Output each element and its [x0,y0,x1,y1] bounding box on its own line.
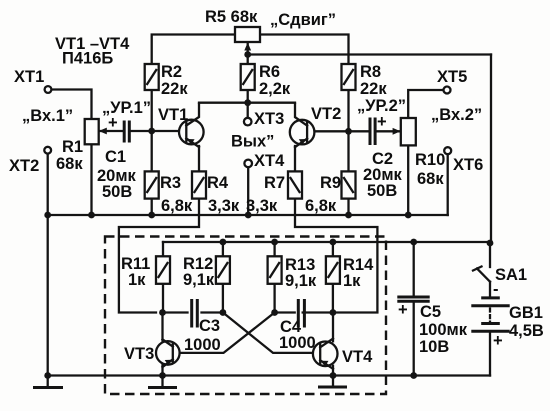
svg-text:GB1: GB1 [509,304,543,322]
wire R6 bottom to output node [247,90,249,103]
wire R4 bottom down-left into multivibrator to VT3 collector node [119,199,199,313]
svg-text:1000: 1000 [279,334,316,352]
node rail B / C5 [410,239,417,246]
wire multivibrator supply rail B [163,241,491,243]
svg-text:C5: C5 [420,303,441,321]
svg-text:Вых”: Вых” [231,133,274,151]
svg-text:П416Б: П416Б [62,50,113,68]
ground below VT3 emitter [148,386,177,389]
wire C5 bottom to bottom rail [413,303,415,376]
wire R5 wiper dot down to R6 top [247,44,249,64]
wire C1 to VT1 base node [131,130,152,132]
wire XT4 stub to mid rail [247,167,249,215]
wire bottom ground rail [48,374,490,376]
wire cross-coupling R13 node to VT3 base [173,313,275,353]
wire C2 to R10 wiper [377,130,401,132]
svg-text:VT3: VT3 [124,345,154,363]
node mid rail / R10 [405,212,412,219]
wire base node to VT1 base [152,130,187,132]
node output (collectors, R6, XT3) [244,99,251,106]
svg-text:R6: R6 [259,63,280,81]
potentiometer R5 [235,27,260,51]
node VT2 base [345,128,352,135]
svg-text:22к: 22к [161,80,188,98]
svg-text:22к: 22к [360,80,387,98]
capacitor C2 [370,118,375,146]
wire XT1 to R1 top [51,90,92,120]
svg-text:R9: R9 [320,174,341,192]
svg-text:R1: R1 [62,138,83,156]
svg-text:R4: R4 [207,174,229,192]
node bottom rail / left ground [44,372,51,379]
node VT4 collector [330,309,337,316]
node rail B / R13 [271,239,278,246]
node bottom rail / C5 [410,372,417,379]
wire R9 bottom to mid rail [347,199,349,215]
terminal XT6 [444,147,451,154]
node bottom rail / VT3 emitter [159,372,166,379]
node VT3 collector [159,309,166,316]
transistor VT2 [290,104,315,147]
wire C5 branch from rail B [413,242,415,296]
svg-text:6,8к: 6,8к [305,197,337,215]
terminal XT1 [45,86,52,93]
svg-text:3,3к: 3,3к [246,197,278,215]
svg-text:R7: R7 [264,174,285,192]
wire C3 to R12 bottom node [202,284,223,313]
svg-text:9,1к: 9,1к [285,272,317,290]
capacitor C3 [192,299,198,328]
node rail B / right bus SA1 [487,240,494,247]
wire R7 bottom down-right into multivibrator to VT4 collector node [295,199,377,313]
wire R2 bottom to base node to R3 top [151,90,153,171]
node mid rail / XT2 [44,212,51,219]
svg-text:C1: C1 [105,148,126,166]
svg-text:„Сдвиг”: „Сдвиг” [270,11,336,29]
svg-text:9,1к: 9,1к [183,271,215,289]
node mid rail / R9 [345,212,352,219]
wire GB1 bottom to bottom rail corner [489,333,491,376]
svg-text:1к: 1к [128,271,146,289]
potentiometer R1 [85,119,107,144]
capacitor C1 [124,121,129,143]
resistor R6 [241,64,255,90]
wire R8 bottom to VT2 base node to R9 top [347,90,349,171]
wire R3 bottom to mid rail [151,199,153,215]
svg-text:-: - [493,281,499,299]
ground at bottom left [33,386,63,389]
svg-text:XT3: XT3 [254,110,284,128]
terminal XT2 [44,147,51,154]
wire C4 to R14 bottom node [303,284,333,313]
svg-text:C3: C3 [199,317,220,335]
wire mid ground rail [48,214,448,216]
resistor R8 [342,64,356,90]
wire R10 top up-right to XT5 [408,90,444,118]
wire right bus down from supply rail [490,55,492,244]
wire R13 top stub [273,242,275,256]
svg-text:VT2: VT2 [311,105,341,123]
switch SA1 [473,267,490,282]
wire R1 wiper to C1 [99,130,123,132]
svg-text:4,5В: 4,5В [509,322,544,340]
wire XT2 down through mid rail to ground [47,154,49,387]
potentiometer R10 [393,118,416,145]
wire R10 bottom to mid rail [407,145,409,215]
wire R13 bottom node to C4 [275,284,295,313]
resistor R2 [145,64,159,90]
node VT3 base coupling [271,309,278,316]
svg-text:1000: 1000 [184,336,221,354]
wire VT4 emitter down to bottom rail and ground [332,366,334,386]
wire R1 bottom to mid rail [90,144,92,215]
transistor VT3 [156,339,180,367]
node mid rail / XT4 [245,212,252,219]
svg-text:XT6: XT6 [453,156,483,174]
svg-text:50В: 50В [102,183,132,201]
capacitor C4 [298,299,304,328]
terminal XT5 [444,87,451,94]
svg-text:+: + [377,113,387,131]
terminal XT4 [244,160,252,168]
resistor R7 [288,171,302,198]
svg-text:68к: 68к [417,170,444,188]
resistor R14 [326,256,340,284]
svg-text:R3: R3 [160,174,181,192]
node VT1 base [148,128,155,135]
svg-text:VT4: VT4 [342,348,373,366]
node mid rail / R1 [88,212,95,219]
svg-text:R5 68к: R5 68к [205,8,258,26]
wire VT4 collector up to node [332,313,334,342]
svg-text:R8: R8 [360,63,381,81]
svg-text:6,8к: 6,8к [161,197,193,215]
svg-text:100мк: 100мк [419,321,468,339]
svg-text:XT1: XT1 [14,68,44,86]
wire VT2 base to its node [307,130,348,132]
svg-text:+: + [108,114,118,132]
wire collector link VT1 to VT2 through output node [199,102,295,104]
svg-text:68к: 68к [56,155,83,173]
wire VT3 collector up to node [161,313,163,341]
svg-text:10В: 10В [419,338,449,356]
svg-text:VT1: VT1 [158,106,188,124]
wire VT1 emitter down to R4 top [198,146,200,171]
resistor R9 [342,171,356,198]
node VT4 base coupling [220,309,227,316]
svg-text:2,2к: 2,2к [259,80,291,98]
wire output node stub to XT3 [247,103,249,118]
svg-text:3,3к: 3,3к [208,197,240,215]
wire SA1 bottom to GB1 top [489,282,491,297]
node mid rail / R3 [148,212,155,219]
svg-text:XT2: XT2 [9,157,39,175]
wire R12 top stub [222,242,224,256]
node R5 wiper / supply rail [244,51,251,58]
wire VT2 base node to C2 [349,130,369,132]
node bottom rail / VT4 emitter [330,372,337,379]
transistor VT1 [179,104,204,147]
wire R11 bottom to VT3 collector node and C3 [163,284,188,313]
wire cross-coupling R12 node to VT4 base [223,313,320,353]
wire supply rail from R5 wiper to right bus [248,53,491,55]
resistor R11 [156,256,170,284]
terminal XT3 [244,118,252,126]
svg-text:XT5: XT5 [437,68,467,86]
resistor R13 [268,256,282,284]
svg-text:R10: R10 [415,151,445,169]
resistor R4 [192,171,206,198]
dashed multivibrator box [105,237,386,395]
svg-text:1к: 1к [343,272,361,290]
svg-text:„Вх.1”: „Вх.1” [22,107,73,125]
battery GB1 [471,298,509,331]
wire XT6 stub down to mid rail [447,154,449,215]
wire VT2 emitter down to R7 top [294,146,296,171]
svg-text:+: + [493,332,503,350]
wire R5 right terminal down to supply rail and R8 top [260,35,349,65]
resistor R12 [216,256,230,284]
wire SA1 top stub from right bus dot [489,243,491,267]
svg-text:+: + [398,301,408,319]
svg-text:SA1: SA1 [495,266,527,284]
svg-text:„Вх.2”: „Вх.2” [431,106,482,124]
transistor VT4 [313,339,338,369]
svg-text:50В: 50В [367,182,397,200]
svg-text:XT4: XT4 [254,152,285,170]
wire VT3 emitter down to bottom rail and ground [161,365,163,387]
wire R5 left terminal down to R2 top [152,35,235,65]
wire R14 top stub [332,242,334,256]
node rail B / R14 [330,239,337,246]
wire R11 top stub [162,242,164,256]
resistor R3 [145,171,159,198]
node rail B / R12 [220,239,227,246]
capacitor C5 [397,297,429,301]
svg-text:R2: R2 [161,63,182,81]
ground below VT4 emitter [318,386,347,389]
